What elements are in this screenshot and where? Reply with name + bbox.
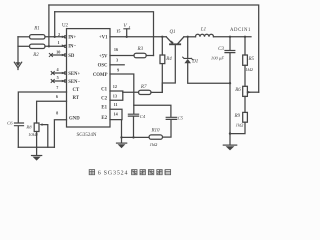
svg-text:SEN+: SEN+: [68, 72, 80, 77]
svg-text:GND: GND: [69, 117, 80, 122]
svg-text:ADCIN1: ADCIN1: [230, 28, 251, 33]
svg-text:R9: R9: [233, 114, 240, 119]
svg-text:SEN−: SEN−: [68, 80, 80, 85]
svg-text:SD: SD: [68, 54, 75, 59]
svg-text:IN−: IN−: [68, 45, 76, 50]
svg-text:V: V: [123, 23, 127, 29]
svg-text:1: 1: [57, 40, 59, 45]
svg-text:s: s: [129, 25, 131, 29]
svg-text:6: 6: [98, 170, 101, 176]
svg-text:R10: R10: [150, 129, 160, 134]
svg-text:+V1: +V1: [99, 36, 108, 41]
svg-text:SG3524N: SG3524N: [76, 133, 96, 138]
svg-text:14: 14: [114, 112, 119, 117]
svg-text:7: 7: [56, 85, 58, 90]
svg-text:E2: E2: [101, 116, 107, 121]
svg-text:R2: R2: [32, 53, 39, 58]
svg-text:4: 4: [56, 67, 59, 72]
svg-text:1kΩ: 1kΩ: [150, 142, 158, 147]
svg-text:CT: CT: [73, 88, 80, 93]
svg-text:R5: R5: [248, 57, 255, 62]
svg-text:10: 10: [56, 49, 60, 54]
svg-text:6: 6: [56, 94, 58, 99]
svg-text:3: 3: [116, 58, 118, 63]
svg-text:R3: R3: [137, 47, 144, 52]
svg-text:C1: C1: [101, 87, 107, 92]
svg-text:U2: U2: [62, 23, 69, 28]
svg-text:C3: C3: [218, 47, 224, 52]
svg-text:R4: R4: [165, 57, 172, 62]
svg-text:R8: R8: [25, 124, 32, 129]
svg-text:10kΩ: 10kΩ: [28, 132, 38, 137]
svg-text:5: 5: [57, 75, 59, 80]
svg-text:11: 11: [114, 102, 118, 107]
svg-text:COMP: COMP: [93, 73, 108, 78]
svg-text:R1: R1: [33, 27, 40, 32]
svg-text:L1: L1: [200, 28, 206, 33]
svg-text:+5V: +5V: [99, 54, 108, 59]
svg-text:9: 9: [117, 67, 119, 72]
svg-text:100 μF: 100 μF: [211, 55, 224, 60]
svg-text:C4: C4: [140, 114, 146, 119]
svg-text:R7: R7: [140, 85, 147, 90]
svg-text:IN+: IN+: [68, 36, 76, 41]
svg-text:C2: C2: [101, 97, 107, 102]
svg-text:C6: C6: [7, 121, 13, 126]
svg-text:RT: RT: [73, 96, 80, 101]
svg-text:16: 16: [114, 47, 118, 52]
svg-text:1kΩ: 1kΩ: [236, 122, 244, 127]
svg-text:2: 2: [58, 32, 60, 37]
svg-text:12: 12: [113, 84, 117, 89]
svg-text:SG3524: SG3524: [104, 170, 129, 176]
svg-text:OSC: OSC: [98, 64, 108, 69]
svg-text:13: 13: [113, 94, 117, 99]
svg-text:R6: R6: [234, 88, 241, 93]
svg-text:D1: D1: [191, 60, 198, 65]
svg-text:1kΩ: 1kΩ: [245, 67, 253, 72]
svg-text:15: 15: [116, 29, 120, 34]
svg-text:E1: E1: [101, 106, 107, 111]
svg-text:8: 8: [56, 111, 58, 116]
svg-text:C5: C5: [178, 116, 184, 121]
svg-text:Q1: Q1: [169, 30, 175, 35]
